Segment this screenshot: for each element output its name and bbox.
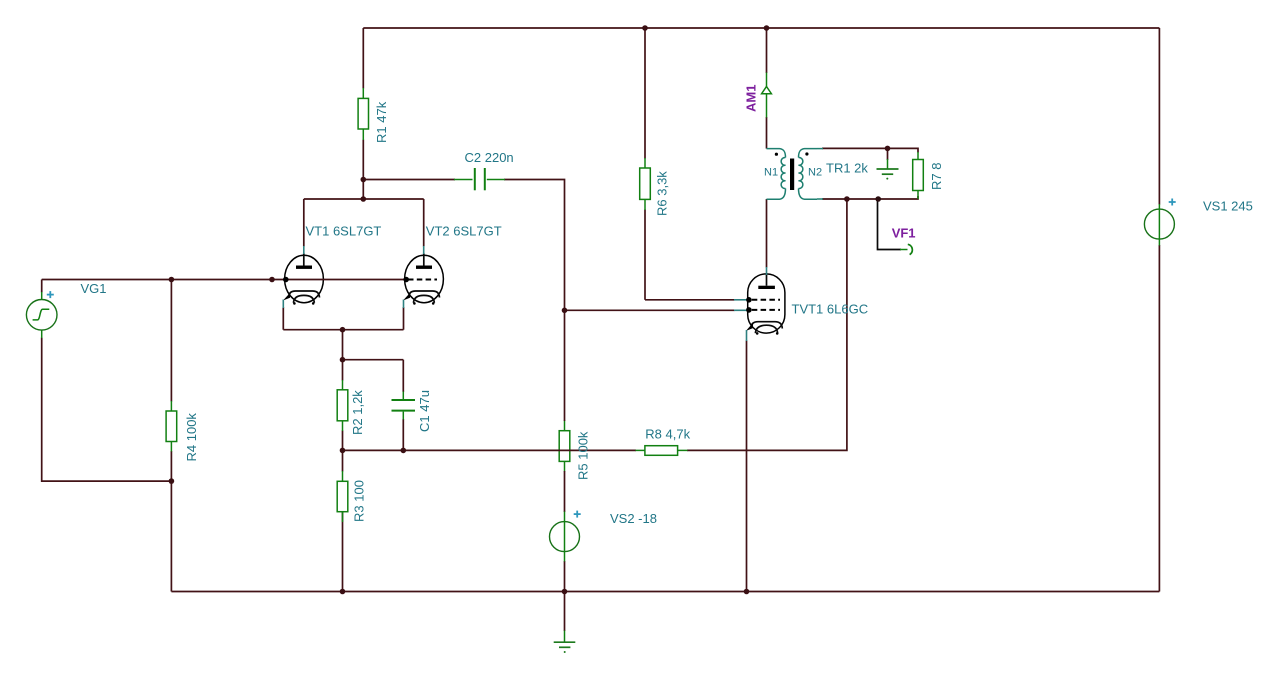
ground at bottom bbox=[554, 631, 576, 654]
junction node R4 top bbox=[169, 277, 175, 283]
pin dot VT2 grid bbox=[403, 277, 409, 283]
resistor R6 bbox=[640, 158, 651, 210]
wire C1 bottom bbox=[402, 419, 404, 450]
resistor R1 bbox=[358, 88, 368, 140]
tube pin stub TVT1 grid2 bbox=[734, 309, 749, 311]
svg-text:N1: N1 bbox=[764, 167, 778, 179]
junction node ground N2 top bbox=[885, 146, 891, 152]
plus sign VS1 bbox=[1169, 199, 1176, 206]
wire R1 bottom to node bbox=[362, 140, 364, 200]
wire TVT1 grid2 row bbox=[565, 309, 735, 311]
wire TVT1 anode riser bbox=[766, 199, 768, 268]
svg-text:R7 8: R7 8 bbox=[929, 163, 944, 190]
svg-text:R4 100k: R4 100k bbox=[184, 413, 199, 462]
wire C2 right to corner bbox=[504, 180, 565, 311]
wire R3 bottom bbox=[342, 512, 344, 592]
wire VT2 cathode drop bbox=[403, 307, 405, 330]
wire VT1 cathode drop bbox=[282, 307, 284, 330]
junction node R2 top bbox=[340, 357, 346, 363]
svg-text:TR1 2k: TR1 2k bbox=[826, 161, 868, 176]
tube pin stub VT1 cathode bbox=[282, 300, 284, 309]
tube pin stub VT1 plate bbox=[303, 246, 305, 254]
resistor R4 bbox=[166, 401, 177, 452]
wire top bus bbox=[363, 27, 1159, 29]
wire ground stub bottom bbox=[564, 592, 566, 632]
pentode TVT1 envelope and internals bbox=[746, 274, 785, 335]
wire anode link VT1-VT2 bbox=[304, 198, 424, 200]
svg-text:C1 47u: C1 47u bbox=[417, 390, 432, 432]
svg-text:VT1 6SL7GT: VT1 6SL7GT bbox=[306, 224, 382, 239]
capacitor C1 bbox=[392, 392, 416, 420]
wire VG1 bottom bbox=[42, 338, 172, 482]
junction node R6 top bbox=[642, 25, 648, 31]
junction node R1 bottom C2 bbox=[361, 177, 367, 183]
wire C2 left bbox=[363, 179, 455, 181]
svg-text:VF1: VF1 bbox=[892, 226, 916, 241]
wire R5 bottom to VS2 bbox=[564, 471, 566, 512]
wire R3 top stub bbox=[342, 450, 344, 471]
svg-text:C2 220n: C2 220n bbox=[465, 150, 514, 165]
pin dot TVT1 grid1 bbox=[746, 297, 752, 303]
wire R4 bottom bbox=[170, 451, 172, 481]
plus sign VG1 bbox=[47, 291, 54, 298]
svg-text:AM1: AM1 bbox=[744, 85, 759, 112]
wire cathode link bbox=[283, 329, 403, 331]
junction node before VT1 grid bbox=[269, 277, 275, 283]
wire N2 bottom to R7 bbox=[822, 196, 918, 199]
wire left bottom drop bbox=[170, 481, 172, 591]
ammeter AM1 bbox=[762, 73, 772, 118]
junction node VF1 tap bbox=[875, 196, 881, 202]
pin dot TVT1 grid2 bbox=[746, 307, 752, 313]
svg-text:N2: N2 bbox=[808, 167, 822, 179]
junction node R2 bottom bbox=[340, 448, 346, 454]
wire VG1 top bbox=[41, 280, 43, 293]
source VG1 bbox=[26, 292, 57, 338]
resistor R2 bbox=[337, 380, 348, 431]
svg-text:R6 3,3k: R6 3,3k bbox=[655, 171, 670, 216]
wire VS2 bottom bbox=[564, 561, 566, 592]
wire TVT1 grid1 row bbox=[645, 299, 735, 301]
junction node C1 bottom bbox=[401, 448, 407, 454]
wire AM1 top bbox=[766, 28, 768, 73]
junction node VG1 bottom bbox=[169, 478, 175, 484]
junction node anode tee bbox=[361, 196, 367, 202]
junction node grid2 tee bbox=[562, 308, 568, 314]
wire node row y450 bbox=[343, 449, 637, 451]
wire AM1 bottom bbox=[766, 117, 768, 149]
wire VS1 top bbox=[1158, 28, 1160, 205]
wire R6 top bbox=[644, 28, 646, 159]
wire R5 top bbox=[564, 310, 566, 421]
tube pin stub VT2 plate bbox=[423, 246, 425, 254]
wire VT2 anode riser bbox=[423, 199, 425, 247]
wire R2 bottom bbox=[342, 431, 344, 451]
svg-text:VS1 245: VS1 245 bbox=[1203, 199, 1253, 214]
wire VF1 drop bbox=[878, 199, 902, 250]
svg-text:VG1: VG1 bbox=[81, 281, 107, 296]
tube pin stub VT2 cathode bbox=[403, 300, 405, 309]
junction node bus R3 bbox=[340, 589, 346, 595]
wire N2 top to R7 bbox=[822, 148, 918, 152]
pin dot VT1 grid bbox=[283, 277, 289, 283]
wire R1 top drop bbox=[362, 28, 364, 89]
wire R6 bottom drop bbox=[644, 210, 646, 300]
ground near transformer bbox=[877, 159, 899, 180]
svg-text:R1 47k: R1 47k bbox=[374, 101, 389, 143]
triode VT1 envelope and internals bbox=[283, 253, 323, 305]
svg-text:VS2 -18: VS2 -18 bbox=[610, 511, 657, 526]
resistor R8 bbox=[636, 446, 688, 456]
wire R2 top link bbox=[343, 359, 404, 361]
wire bottom bus bbox=[171, 591, 1159, 593]
resistor R3 bbox=[337, 471, 348, 522]
resistor R7 bbox=[913, 152, 924, 199]
wire cathode node drop bbox=[342, 330, 344, 360]
source VS1 bbox=[1144, 204, 1174, 246]
wire R4 top bbox=[170, 280, 172, 402]
junction node cathode link bbox=[340, 327, 346, 333]
transformer TR1 bbox=[767, 149, 824, 200]
wire grid bus bbox=[42, 279, 406, 281]
tube pin stub TVT1 grid1 bbox=[734, 299, 749, 301]
resistor R5 bbox=[559, 421, 570, 472]
svg-text:R2 1,2k: R2 1,2k bbox=[350, 390, 365, 435]
svg-text:R5 100k: R5 100k bbox=[576, 431, 591, 480]
tube pin stub TVT1 plate bbox=[766, 267, 768, 275]
svg-text:R8 4,7k: R8 4,7k bbox=[645, 427, 690, 442]
tube pin stub TVT1 cathode bbox=[746, 330, 748, 341]
svg-text:TVT1 6L6GC: TVT1 6L6GC bbox=[792, 302, 869, 317]
voltage pin VF1 bbox=[900, 244, 912, 254]
wire VT1 anode riser bbox=[303, 199, 305, 247]
junction node N2 bottom left bbox=[844, 196, 850, 202]
wire C1 top bbox=[402, 360, 404, 392]
junction node bus VS2 bbox=[562, 589, 568, 595]
wire VS1 bottom bbox=[1158, 245, 1160, 592]
wire ground stub at transformer bbox=[887, 148, 889, 160]
wire R2 stub top bbox=[342, 360, 344, 381]
plus sign VS2 bbox=[574, 511, 581, 518]
source VS2 bbox=[550, 512, 580, 562]
junction node AM1 top bbox=[764, 25, 770, 31]
capacitor C2 bbox=[454, 168, 505, 190]
triode VT2 envelope and internals bbox=[403, 253, 443, 305]
wire R8 right run bbox=[687, 199, 847, 450]
svg-text:R3 100: R3 100 bbox=[352, 480, 367, 522]
junction node bus TVT1 cathode bbox=[744, 589, 750, 595]
svg-text:VT2 6SL7GT: VT2 6SL7GT bbox=[426, 224, 502, 239]
wire TVT1 cathode drop bbox=[746, 341, 748, 592]
